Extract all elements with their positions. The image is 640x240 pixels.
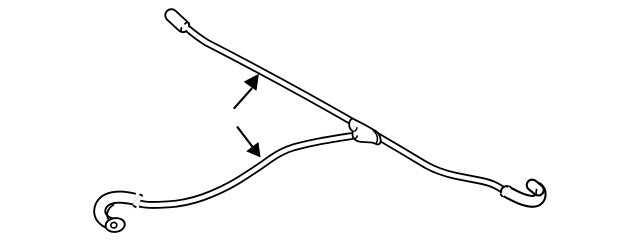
left hose end hook — [100, 197, 135, 224]
right hose collar — [505, 190, 507, 193]
right hook inner crease — [535, 189, 537, 195]
top fitting body — [171, 15, 183, 26]
arrow 1 (upper) shaft — [234, 88, 252, 109]
T-connector branch upper lip curl — [354, 127, 357, 131]
T-connector branch lower lip curl — [355, 135, 358, 138]
T-connector body — [349, 118, 380, 144]
right hose end hook — [507, 188, 541, 201]
top fitting collar top curl — [185, 22, 190, 26]
top fitting collar bottom curl — [181, 27, 184, 32]
T-connector right lip inner line — [373, 130, 378, 143]
top fitting neck white merge — [183, 26, 190, 31]
arrow 2 (lower) shaft — [237, 127, 253, 148]
left hose open end — [105, 217, 126, 233]
branch hose lower-left run — [140, 135, 361, 205]
arrow 2 (lower) head — [247, 143, 259, 156]
right hook end cap stub — [532, 185, 538, 190]
left hose inner bend edge — [107, 205, 114, 220]
arrow 1 (upper) head — [245, 75, 258, 90]
left hose collar — [136, 200, 139, 202]
main tube diagonal run — [188, 29, 505, 192]
